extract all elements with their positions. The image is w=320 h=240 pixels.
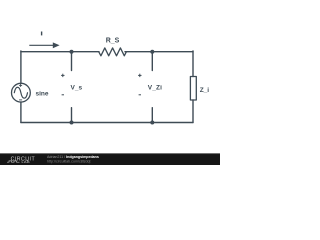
node dot top V_s junction [70,50,74,54]
wire V_Zi lower stub [151,108,153,123]
wire bottom rail [21,122,193,124]
watermark logo waveform [7,161,20,162]
V_s minus sign [62,94,64,96]
watermark bar [0,154,220,166]
impedance box Z_i [190,77,196,101]
V_Zi minus sign [139,94,141,96]
V_s plus sign [61,74,64,77]
wire V_s lower stub [71,108,73,123]
voltage source V1 circle [12,83,31,102]
node dot bottom V_Zi junction [150,121,154,125]
V_Zi plus sign [138,74,141,77]
svg-text:R_S: R_S [106,38,120,45]
label I [41,32,42,36]
source plus sign [19,84,22,87]
wire top rail left [21,51,99,53]
wire top rail right [125,51,193,53]
node dot bottom V_s junction [70,121,74,125]
svg-text:V_Zi: V_Zi [148,85,162,92]
wire left vertical bottom [20,102,22,123]
svg-text:V_s: V_s [71,85,83,92]
wire V_Zi upper stub [151,52,153,71]
svg-text:http://circuitlab.com/c8tzdqt: http://circuitlab.com/c8tzdqt [47,159,91,163]
svg-text:LAB: LAB [22,160,30,164]
current arrow I [29,42,59,48]
source minus sign [19,99,22,101]
svg-text:Z_i: Z_i [200,87,210,94]
voltage source sine wave [14,87,27,98]
wire right vertical top [192,51,194,77]
resistor R_S [99,48,127,56]
wire right vertical bottom [192,100,194,123]
wire left vertical top [20,51,22,83]
node dot top V_Zi junction [150,50,154,54]
wire V_s upper stub [71,52,73,71]
svg-text:sine: sine [36,90,49,97]
